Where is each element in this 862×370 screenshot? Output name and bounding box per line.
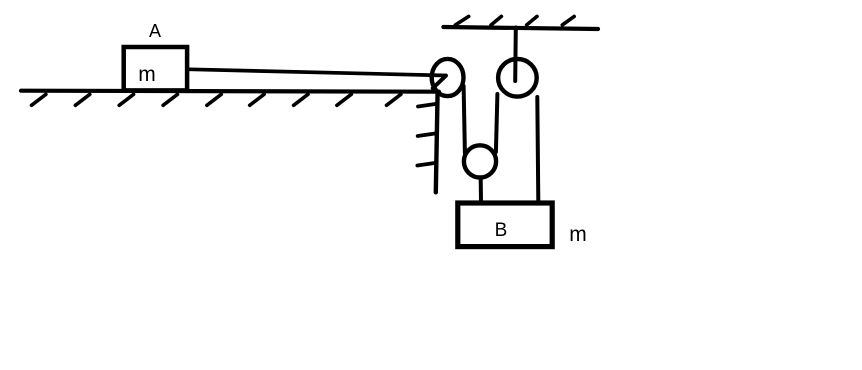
ceiling line: [443, 27, 598, 29]
ground hatch marks: [32, 94, 401, 105]
rope hook at pulley: [433, 76, 446, 88]
rope from movable pulley down to block B: [479, 179, 483, 202]
block A: [124, 47, 187, 90]
rope from block A to table-edge pulley: [189, 69, 446, 75]
label B (block B): [486, 221, 516, 240]
table edge vertical line: [436, 92, 438, 193]
table edge hatch marks: [417, 104, 435, 166]
block B: [458, 203, 552, 247]
movable pulley: [464, 145, 496, 177]
rope from edge pulley down to movable pulley: [464, 86, 465, 153]
label A (block A): [140, 22, 170, 40]
support rod from ceiling to pulley centre: [513, 28, 518, 82]
label m (mass of B): [563, 224, 593, 245]
ground / table surface line: [21, 91, 439, 92]
pulley at table edge: [432, 59, 464, 96]
ceiling pulley: [498, 59, 537, 97]
rope from ceiling pulley down to block B: [537, 97, 538, 201]
rope from movable pulley up to ceiling pulley: [496, 94, 498, 152]
label m (mass of A): [132, 64, 162, 85]
ceiling hatch marks: [455, 16, 574, 25]
